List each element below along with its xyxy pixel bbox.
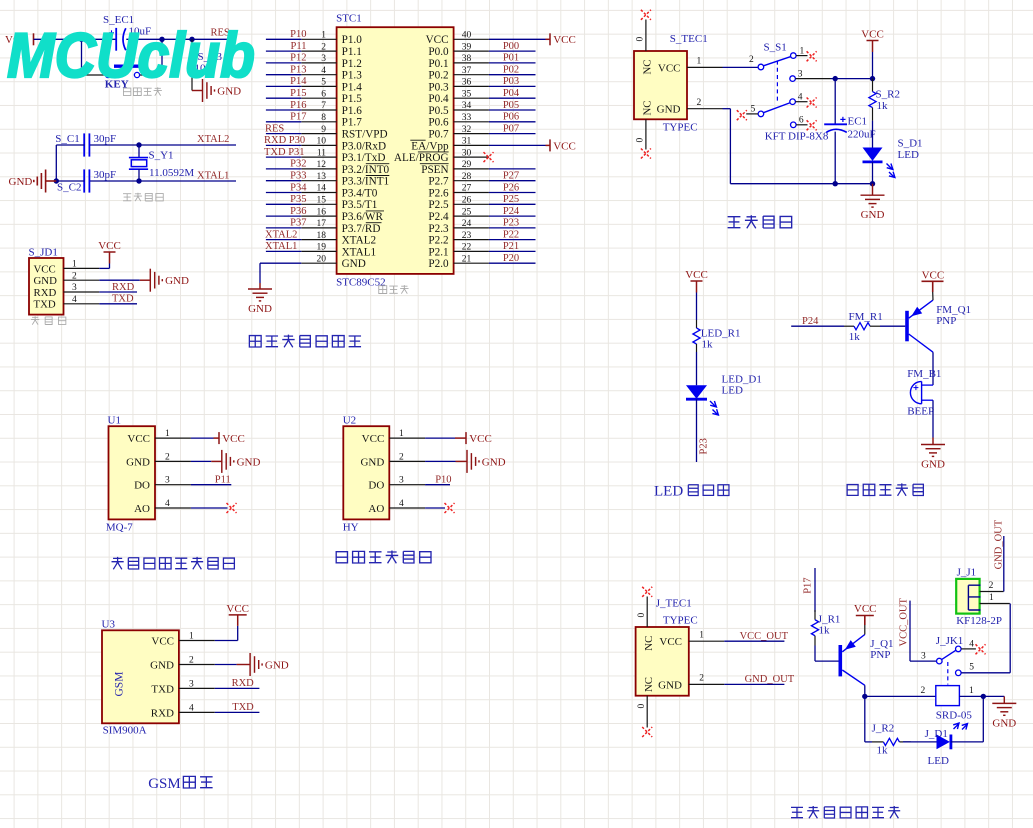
junction bbox=[833, 181, 838, 186]
svg-text:TXD P31: TXD P31 bbox=[264, 147, 305, 158]
wire U2 pin1 to VCC bbox=[425, 437, 455, 439]
svg-text:23: 23 bbox=[462, 231, 472, 241]
LED LED_D1 bbox=[686, 385, 707, 398]
svg-text:28: 28 bbox=[462, 172, 472, 182]
svg-text:GND: GND bbox=[992, 717, 1016, 729]
no-ERC X switch pin6 bbox=[807, 120, 817, 130]
svg-text:VCC: VCC bbox=[922, 270, 945, 282]
svg-text:24: 24 bbox=[462, 219, 472, 229]
switch gang dashed link bbox=[776, 61, 778, 104]
svg-text:17: 17 bbox=[317, 219, 327, 229]
wire cap join left bbox=[55, 145, 57, 181]
wire U1 pin2 to GND bbox=[191, 460, 211, 462]
svg-text:13: 13 bbox=[317, 172, 327, 182]
svg-text:U3: U3 bbox=[102, 619, 116, 631]
svg-text:GND: GND bbox=[9, 176, 33, 188]
wire net P13 left bbox=[266, 74, 301, 76]
svg-text:P0.5: P0.5 bbox=[428, 105, 449, 117]
pin 2 U2 bbox=[389, 460, 425, 462]
svg-text:P33: P33 bbox=[290, 171, 306, 182]
wire net P14 left bbox=[266, 85, 301, 87]
svg-text:11.0592M: 11.0592M bbox=[149, 167, 194, 179]
wire VCC to reset node bbox=[34, 38, 117, 40]
module U3 SIM900A bbox=[102, 630, 179, 723]
svg-text:VCC: VCC bbox=[658, 62, 681, 74]
svg-text:1k: 1k bbox=[819, 625, 831, 637]
svg-text:GND_OUT: GND_OUT bbox=[994, 519, 1005, 569]
pin 2 STC1 left bbox=[301, 50, 336, 52]
svg-text:39: 39 bbox=[462, 42, 472, 52]
pin 4 U1 bbox=[155, 507, 191, 509]
wire pin1 to switch bbox=[723, 66, 758, 68]
svg-text:22: 22 bbox=[462, 243, 472, 253]
pin 22 STC1 right bbox=[454, 250, 489, 252]
svg-text:XTAL1: XTAL1 bbox=[197, 171, 229, 182]
svg-text:P07: P07 bbox=[503, 123, 519, 134]
svg-text:PNP: PNP bbox=[870, 649, 890, 661]
svg-text:2: 2 bbox=[165, 452, 170, 462]
wire P10 bbox=[425, 484, 450, 486]
svg-text:P0.6: P0.6 bbox=[428, 117, 449, 129]
svg-text:1: 1 bbox=[189, 632, 194, 642]
pin 19 STC1 left bbox=[301, 250, 336, 252]
pin 1 S_TEC1 bbox=[687, 66, 723, 68]
pin 1 STC1 left bbox=[301, 38, 336, 40]
svg-text:NC: NC bbox=[643, 636, 655, 651]
svg-text:P0.2: P0.2 bbox=[428, 70, 448, 82]
svg-text:GND: GND bbox=[165, 275, 189, 287]
wire to base bbox=[880, 325, 905, 327]
svg-text:0: 0 bbox=[637, 704, 647, 709]
svg-text:XTAL1: XTAL1 bbox=[342, 246, 377, 258]
svg-text:TXD: TXD bbox=[34, 299, 56, 311]
svg-text:XTAL2: XTAL2 bbox=[197, 134, 229, 145]
svg-text:GND: GND bbox=[150, 659, 174, 671]
svg-text:NC: NC bbox=[643, 677, 655, 692]
pin 2 S_JD1 bbox=[64, 279, 100, 281]
module U2 HY bbox=[343, 426, 389, 519]
wire net P21 right bbox=[489, 250, 536, 252]
pin 24 STC1 right bbox=[454, 227, 489, 229]
svg-text:RXD: RXD bbox=[151, 707, 174, 719]
svg-text:3: 3 bbox=[321, 54, 326, 64]
svg-text:J_R2: J_R2 bbox=[872, 723, 895, 735]
svg-text:VCC: VCC bbox=[98, 240, 121, 252]
power VCC LED circuit bbox=[691, 281, 703, 293]
svg-text:P00: P00 bbox=[503, 41, 519, 52]
svg-text:P3.2/INT0: P3.2/INT0 bbox=[342, 164, 390, 176]
svg-text:5: 5 bbox=[321, 78, 326, 88]
svg-text:GND: GND bbox=[342, 258, 366, 270]
svg-text:1: 1 bbox=[72, 260, 77, 270]
pin 0 top S_TEC1 bbox=[645, 20, 647, 52]
pin 30 STC1 right bbox=[454, 156, 489, 158]
svg-text:19: 19 bbox=[317, 243, 327, 253]
label danpianji gray bbox=[379, 286, 387, 294]
svg-text:40: 40 bbox=[462, 31, 472, 41]
svg-text:VCC: VCC bbox=[127, 433, 150, 445]
svg-text:18: 18 bbox=[317, 231, 327, 241]
svg-text:TYPEC: TYPEC bbox=[663, 122, 698, 134]
svg-text:LED: LED bbox=[898, 149, 919, 161]
svg-text:P2.6: P2.6 bbox=[428, 187, 449, 199]
wire P11 bbox=[191, 484, 231, 486]
svg-text:SIM900A: SIM900A bbox=[103, 725, 147, 737]
no-ERC X U2 AO bbox=[445, 503, 455, 513]
svg-text:S_TEC1: S_TEC1 bbox=[670, 33, 708, 45]
overline WR bbox=[366, 210, 384, 212]
ground S_JD1 bbox=[140, 269, 163, 292]
wire net P25 right bbox=[489, 203, 536, 205]
pin 34 STC1 right bbox=[454, 109, 489, 111]
no-ERC X JK1 pin4 bbox=[976, 644, 986, 654]
wire coil to GND bbox=[959, 695, 1004, 697]
wire net P07 right bbox=[489, 133, 536, 135]
svg-text:P06: P06 bbox=[503, 112, 519, 123]
power VCC S_JD1 bbox=[104, 252, 116, 264]
wire XTAL1 bbox=[90, 180, 236, 182]
wire XTAL2 bbox=[90, 144, 236, 146]
svg-text:6: 6 bbox=[799, 116, 804, 126]
wire net XTAL2 left bbox=[266, 239, 301, 241]
wire switch right leg bbox=[161, 39, 163, 75]
title power circuit bbox=[728, 217, 741, 228]
svg-text:1: 1 bbox=[165, 429, 170, 439]
svg-text:2: 2 bbox=[399, 452, 404, 462]
svg-text:1: 1 bbox=[969, 686, 974, 696]
svg-text:NC: NC bbox=[642, 60, 654, 75]
svg-text:P3.4/T0: P3.4/T0 bbox=[342, 187, 378, 199]
wire VCC_OUT to JK1 pin3 bbox=[909, 601, 911, 662]
svg-text:38: 38 bbox=[462, 54, 472, 64]
wire JK1 pin5 bbox=[961, 672, 1010, 674]
pin 39 STC1 right bbox=[454, 50, 489, 52]
connector J_TEC1 TYPEC bbox=[636, 627, 689, 696]
pin 2 U3 bbox=[179, 664, 215, 666]
capacitor S_EC1 10uF bbox=[115, 28, 117, 51]
title MCU minimal system bbox=[249, 336, 261, 347]
title flame detection module bbox=[336, 552, 347, 563]
pin 27 STC1 right bbox=[454, 192, 489, 194]
svg-text:16: 16 bbox=[317, 207, 327, 217]
junction bbox=[54, 178, 59, 183]
svg-text:P24: P24 bbox=[503, 206, 520, 217]
wire pin2 down to rail bbox=[723, 108, 731, 110]
pin 32 STC1 right bbox=[454, 133, 489, 135]
transistor FM_Q1 PNP bbox=[905, 311, 909, 342]
pin 20 STC1 left bbox=[301, 262, 336, 264]
svg-text:P1.2: P1.2 bbox=[342, 58, 362, 70]
svg-text:2: 2 bbox=[72, 271, 77, 281]
svg-text:P23: P23 bbox=[698, 438, 709, 454]
wire VCC to emitter J_Q1 bbox=[864, 625, 866, 635]
svg-text:20: 20 bbox=[317, 254, 327, 264]
wire P24 to base resistor bbox=[791, 325, 844, 327]
svg-text:30pF: 30pF bbox=[94, 133, 117, 145]
wire net P17 left bbox=[266, 121, 301, 123]
svg-text:P37: P37 bbox=[290, 218, 306, 229]
svg-text:RXD: RXD bbox=[112, 282, 135, 293]
svg-text:P35: P35 bbox=[290, 194, 306, 205]
svg-text:EC1: EC1 bbox=[848, 116, 868, 128]
junction bbox=[159, 37, 164, 42]
svg-text:P2.0: P2.0 bbox=[428, 258, 449, 270]
svg-text:P1.0: P1.0 bbox=[342, 34, 363, 46]
wire LED to junction bbox=[951, 741, 983, 743]
svg-text:31: 31 bbox=[462, 137, 472, 147]
transistor J_Q1 PNP bbox=[838, 645, 842, 676]
wire U2 pin4 bbox=[425, 507, 445, 509]
svg-text:TXD: TXD bbox=[112, 294, 134, 305]
wire pin29 bbox=[489, 168, 536, 170]
wire VCC to emitter bbox=[932, 292, 934, 300]
svg-text:P25: P25 bbox=[503, 194, 519, 205]
wire net P35 left bbox=[266, 203, 301, 205]
svg-text:25: 25 bbox=[462, 207, 472, 217]
pin 3 U3 bbox=[179, 687, 215, 689]
svg-text:RXD: RXD bbox=[232, 678, 255, 689]
svg-text:KFT DIP-8X8: KFT DIP-8X8 bbox=[765, 130, 829, 142]
wire net P36 left bbox=[266, 215, 301, 217]
pin 18 STC1 left bbox=[301, 239, 336, 241]
svg-text:27: 27 bbox=[462, 184, 472, 194]
pin 13 STC1 left bbox=[301, 180, 336, 182]
pin 3 S_JD1 bbox=[64, 291, 100, 293]
wire resistor to LED bbox=[696, 352, 698, 385]
svg-text:J_D1: J_D1 bbox=[925, 728, 948, 740]
svg-text:VCC: VCC bbox=[222, 433, 245, 445]
power VCC U3 bbox=[229, 615, 247, 626]
svg-text:VCC: VCC bbox=[362, 433, 385, 445]
svg-text:P34: P34 bbox=[290, 182, 307, 193]
svg-text:P3.3/INT1: P3.3/INT1 bbox=[342, 176, 390, 188]
svg-text:VCC: VCC bbox=[553, 140, 576, 152]
pin 10 STC1 left bbox=[301, 144, 336, 146]
svg-text:P2.4: P2.4 bbox=[428, 211, 449, 223]
pin 38 STC1 right bbox=[454, 62, 489, 64]
svg-text:30: 30 bbox=[462, 148, 472, 158]
svg-text:P0.7: P0.7 bbox=[428, 129, 449, 141]
wire switch left leg bbox=[81, 39, 83, 75]
svg-text:P1.1: P1.1 bbox=[342, 46, 362, 58]
svg-text:1k: 1k bbox=[877, 745, 889, 757]
wire net P20 right bbox=[489, 262, 536, 264]
svg-text:21: 21 bbox=[462, 254, 472, 264]
pin 15 STC1 left bbox=[301, 203, 336, 205]
svg-text:P17: P17 bbox=[802, 577, 813, 593]
pins 4 5 of switch bbox=[758, 111, 764, 117]
svg-text:MQ-7: MQ-7 bbox=[106, 522, 133, 534]
pin 8 STC1 left bbox=[301, 121, 336, 123]
pin 11 STC1 left bbox=[301, 156, 336, 158]
svg-text:10: 10 bbox=[317, 137, 327, 147]
wire U3 pin2 to GND bbox=[215, 664, 237, 666]
svg-text:P11: P11 bbox=[291, 41, 307, 52]
wire LED to P23 bbox=[696, 399, 698, 462]
pin 3 U1 bbox=[155, 484, 191, 486]
svg-text:LED: LED bbox=[722, 385, 743, 397]
pin 1 S_JD1 bbox=[64, 267, 100, 269]
wire collector to buzzer bbox=[932, 352, 934, 385]
svg-text:2: 2 bbox=[697, 98, 702, 108]
svg-text:P3.7/RD: P3.7/RD bbox=[342, 223, 381, 235]
wire net P32 left bbox=[266, 168, 301, 170]
svg-text:RXD P30: RXD P30 bbox=[264, 135, 305, 146]
svg-text:P0.0: P0.0 bbox=[428, 46, 449, 58]
svg-text:S_JD1: S_JD1 bbox=[29, 247, 58, 259]
svg-text:2: 2 bbox=[989, 581, 994, 591]
svg-text:12: 12 bbox=[317, 160, 327, 170]
svg-text:2: 2 bbox=[921, 686, 926, 696]
power VCC main bbox=[867, 41, 879, 53]
svg-text:P3.0/RxD: P3.0/RxD bbox=[342, 140, 386, 152]
wire GND_OUT up bbox=[1003, 536, 1005, 592]
wire net P27 right bbox=[489, 180, 536, 182]
svg-text:1k: 1k bbox=[849, 331, 861, 343]
overline PSEN bbox=[420, 163, 449, 165]
svg-text:EA/Vpp: EA/Vpp bbox=[411, 140, 449, 152]
no-ERC X pin30 bbox=[484, 152, 494, 162]
svg-text:P02: P02 bbox=[503, 65, 519, 76]
pin 4 U3 bbox=[179, 711, 215, 713]
wire buzzer to ground bbox=[932, 400, 934, 437]
svg-text:PNP: PNP bbox=[936, 315, 956, 327]
svg-text:J_TEC1: J_TEC1 bbox=[656, 598, 692, 610]
wire net P11 left bbox=[266, 50, 301, 52]
svg-text:32: 32 bbox=[462, 125, 472, 135]
svg-text:ALE/PROG: ALE/PROG bbox=[394, 152, 449, 164]
svg-text:3: 3 bbox=[165, 476, 170, 486]
label crystal circuit gray bbox=[123, 194, 131, 201]
pin 4 U2 bbox=[389, 507, 425, 509]
svg-text:P0.4: P0.4 bbox=[428, 93, 449, 105]
pin 1 U1 bbox=[155, 437, 191, 439]
wire net P01 right bbox=[489, 62, 536, 64]
resistor S_R2 1k bbox=[872, 79, 874, 92]
svg-text:P22: P22 bbox=[503, 229, 519, 240]
wire net P33 left bbox=[266, 180, 301, 182]
no-ERC X U1 AO bbox=[227, 503, 237, 513]
svg-text:GND: GND bbox=[657, 104, 681, 116]
svg-text:P1.3: P1.3 bbox=[342, 70, 363, 82]
pin 1 U3 bbox=[179, 640, 215, 642]
svg-text:34: 34 bbox=[462, 101, 472, 111]
svg-text:DO: DO bbox=[134, 480, 150, 492]
wire U2 pin2 to GND bbox=[425, 460, 455, 462]
svg-text:P2.5: P2.5 bbox=[428, 199, 449, 211]
overline INT0 bbox=[366, 163, 390, 165]
svg-text:0: 0 bbox=[637, 613, 647, 618]
svg-text:P32: P32 bbox=[290, 159, 306, 170]
svg-text:VCC: VCC bbox=[226, 603, 249, 615]
power VCC U2 bbox=[455, 432, 466, 444]
wire LED branch down bbox=[864, 696, 866, 742]
svg-text:P2.3: P2.3 bbox=[428, 223, 449, 235]
capacitor S_C2 30pF bbox=[83, 169, 85, 192]
svg-text:8: 8 bbox=[321, 113, 326, 123]
capacitor EC1 220uF bbox=[834, 79, 836, 125]
svg-text:AO: AO bbox=[134, 503, 150, 515]
wire net TXD P31 left bbox=[266, 156, 301, 158]
wire net RXD P30 left bbox=[266, 144, 301, 146]
svg-text:1: 1 bbox=[699, 631, 704, 641]
svg-text:S_D1: S_D1 bbox=[898, 138, 923, 150]
svg-text:P3.5/T1: P3.5/T1 bbox=[342, 199, 378, 211]
ground U1 bbox=[211, 450, 234, 473]
pin 17 STC1 left bbox=[301, 227, 336, 229]
junction bbox=[833, 76, 838, 81]
svg-text:37: 37 bbox=[462, 66, 472, 76]
svg-text:4: 4 bbox=[72, 295, 77, 305]
svg-text:RES: RES bbox=[265, 123, 284, 134]
title CO detection module bbox=[112, 557, 124, 569]
svg-text:3: 3 bbox=[399, 476, 404, 486]
svg-text:P2.7: P2.7 bbox=[428, 176, 449, 188]
svg-text:0: 0 bbox=[636, 138, 646, 143]
svg-text:GND: GND bbox=[34, 275, 58, 287]
switch S_S2 KEY bbox=[82, 74, 106, 76]
svg-text:P1.4: P1.4 bbox=[342, 81, 363, 93]
wire TXD U3 bbox=[215, 711, 260, 713]
svg-text:P3.6/WR: P3.6/WR bbox=[342, 211, 384, 223]
svg-text:GND: GND bbox=[126, 456, 150, 468]
svg-text:J_JK1: J_JK1 bbox=[936, 635, 964, 647]
svg-text:P27: P27 bbox=[503, 171, 519, 182]
svg-text:1k: 1k bbox=[702, 339, 714, 351]
svg-text:7: 7 bbox=[321, 101, 326, 111]
buzzer FM_B1 BEEP bbox=[910, 381, 921, 403]
svg-text:14: 14 bbox=[317, 184, 327, 194]
ground U3 bbox=[237, 653, 263, 676]
pin 29 STC1 right bbox=[454, 168, 489, 170]
svg-text:GND: GND bbox=[237, 456, 261, 468]
svg-text:GND: GND bbox=[360, 456, 384, 468]
svg-text:4: 4 bbox=[798, 93, 803, 103]
wire net P02 right bbox=[489, 74, 536, 76]
svg-text:1: 1 bbox=[321, 31, 326, 41]
pin 3 of switch bbox=[790, 76, 796, 82]
ground U2 bbox=[456, 450, 480, 473]
svg-text:XTAL2: XTAL2 bbox=[265, 229, 297, 240]
wire net P16 left bbox=[266, 109, 301, 111]
junction bbox=[981, 694, 986, 699]
svg-text:J_J1: J_J1 bbox=[957, 567, 977, 579]
pin 6 of switch bbox=[791, 122, 797, 128]
wire net P10 left bbox=[266, 38, 301, 40]
wire P17 down bbox=[814, 568, 816, 612]
pin 25 STC1 right bbox=[454, 215, 489, 217]
wire to VCC right bbox=[489, 38, 546, 40]
svg-text:VCC: VCC bbox=[469, 433, 492, 445]
svg-text:S_S1: S_S1 bbox=[764, 41, 787, 53]
pin 0 top J_TEC1 bbox=[646, 597, 648, 628]
svg-text:2: 2 bbox=[749, 55, 754, 65]
no-ERC X switch pin1 bbox=[807, 51, 817, 61]
svg-text:P0.1: P0.1 bbox=[428, 58, 448, 70]
svg-text:P10: P10 bbox=[290, 29, 306, 40]
wire VCC to resistor bbox=[696, 293, 698, 321]
svg-text:P17: P17 bbox=[290, 112, 306, 123]
svg-text:GND: GND bbox=[861, 209, 885, 221]
wire switch pin3 to VCC rail bbox=[831, 78, 873, 80]
svg-text:VCC: VCC bbox=[553, 34, 576, 46]
wire to VCC right bbox=[489, 144, 546, 146]
wire collector down bbox=[864, 685, 866, 696]
svg-text:GND: GND bbox=[248, 303, 272, 315]
svg-text:4: 4 bbox=[399, 499, 404, 509]
svg-text:S_Y1: S_Y1 bbox=[149, 149, 174, 161]
resistor LED_R1 1k bbox=[696, 320, 698, 328]
